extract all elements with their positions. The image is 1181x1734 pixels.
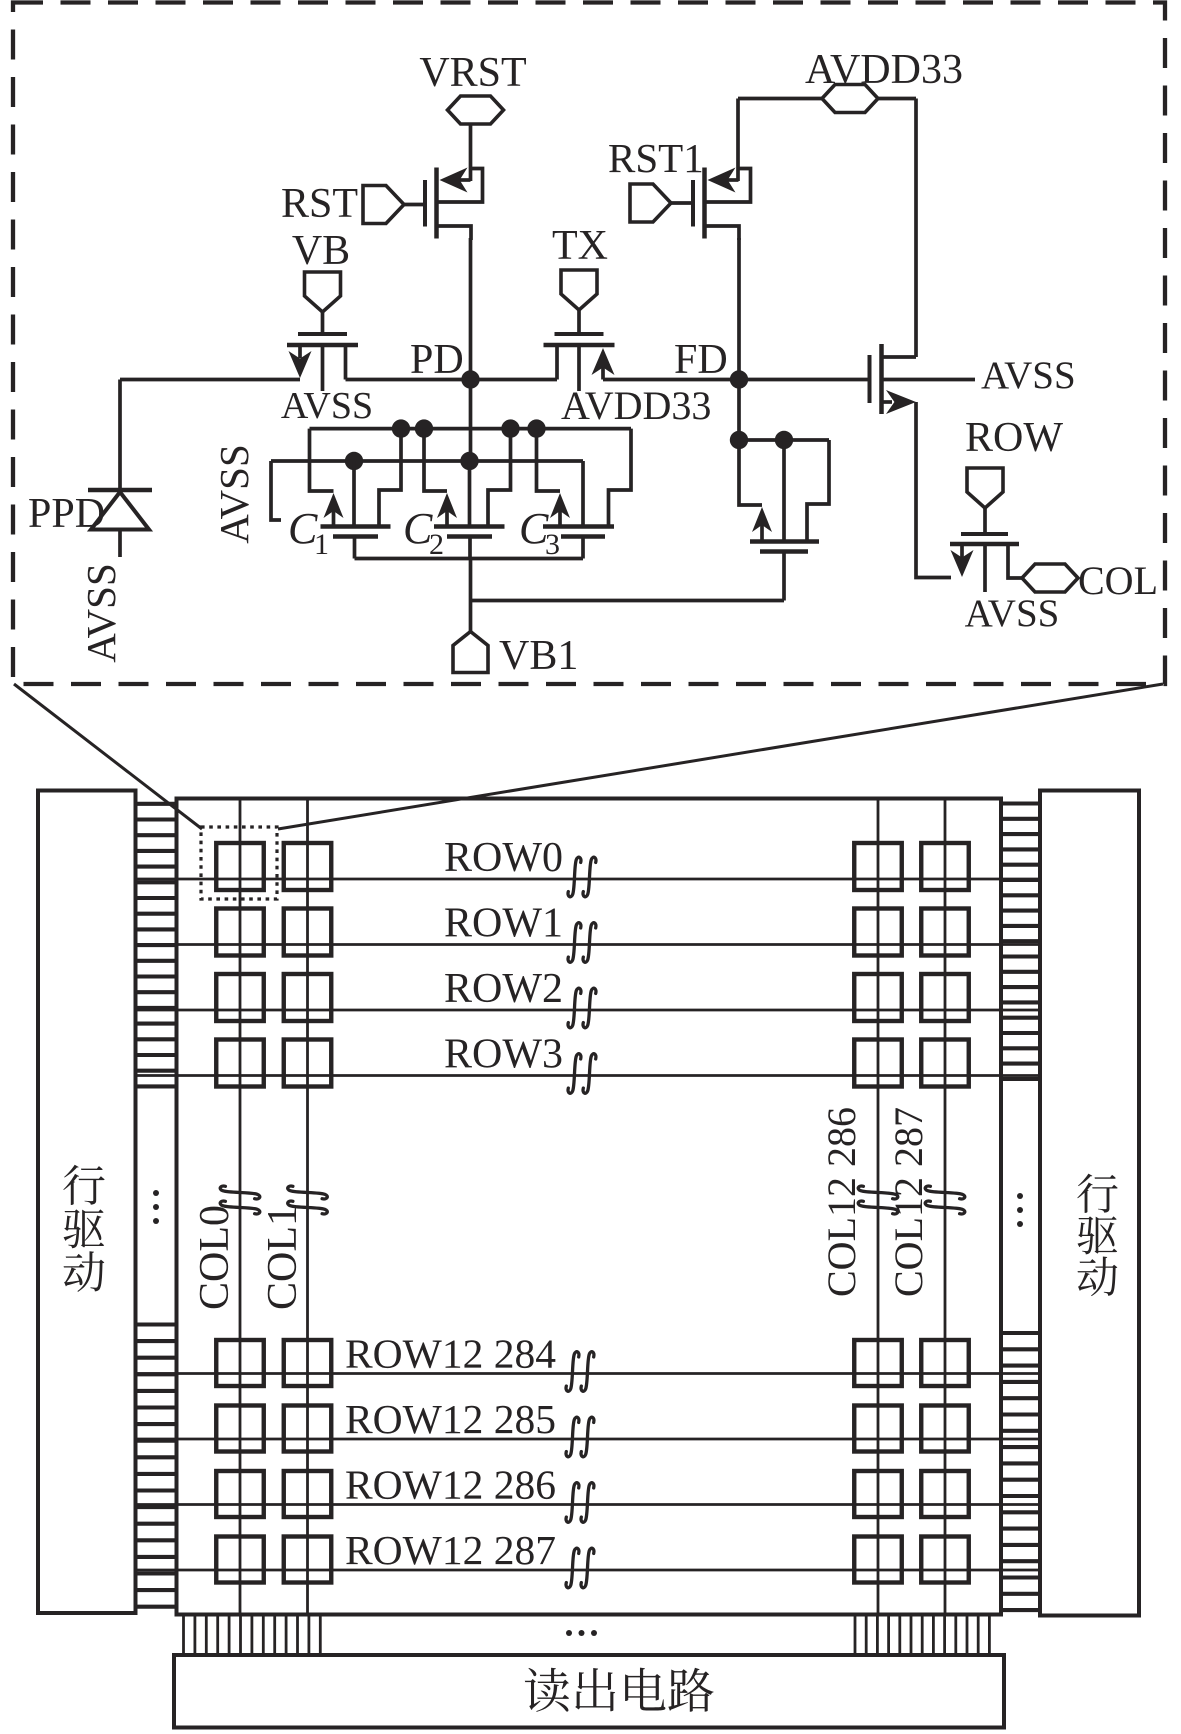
- capacitor C1 arrow: [324, 493, 344, 518]
- node PD junction: [461, 370, 479, 388]
- node CFD dot b: [775, 431, 793, 449]
- svg-text:PD: PD: [410, 337, 464, 383]
- wire AVSS bracket: [271, 461, 281, 520]
- capacitor CFD gate lead: [782, 552, 786, 601]
- pixel array box: [177, 799, 1002, 1615]
- capacitor C1 right lead: [379, 429, 401, 527]
- transistor M5 SF gate bar: [868, 355, 872, 403]
- node rail1 dot c: [501, 419, 519, 437]
- wire cap bottom rail: [355, 557, 584, 561]
- wire ROW gate: [983, 508, 987, 534]
- wire M1 source to PD: [469, 238, 473, 380]
- svg-text:ROW0: ROW0: [444, 835, 563, 881]
- wire TX to FD: [603, 378, 739, 382]
- wire M2 arrow tail: [727, 178, 739, 182]
- wire PPD cathode up: [118, 380, 122, 491]
- wire M1 drain bracket: [437, 169, 483, 203]
- svg-text:COL1: COL1: [260, 1205, 306, 1310]
- pixel cell squares: [216, 843, 264, 890]
- svg-text:AVSS: AVSS: [965, 592, 1060, 635]
- node rail2 dot a: [345, 452, 363, 470]
- svg-text:ROW12 285: ROW12 285: [345, 1396, 556, 1442]
- capacitor C1 channel bar: [321, 524, 391, 529]
- capacitor C2 gate lead: [468, 537, 472, 559]
- label left row-driver 行驱动: [63, 1165, 104, 1205]
- capacitor C3 left lead: [537, 429, 561, 491]
- capacitor C3 channel bar: [543, 524, 614, 529]
- capacitor C2 arrow: [437, 493, 457, 518]
- label right row-driver 行驱动: [1077, 1174, 1117, 1213]
- photodiode PPD triangle: [91, 492, 149, 530]
- input symbol VB1 pentagon: [453, 632, 488, 673]
- transistor M4 TX gate bar: [555, 332, 604, 336]
- capacitor C1 gate bar: [333, 534, 378, 539]
- dotted pixel cell box: [201, 827, 277, 899]
- wire rail lower: [271, 459, 583, 463]
- svg-text:ROW2: ROW2: [444, 966, 563, 1012]
- svg-text:COL12 287: COL12 287: [886, 1107, 931, 1297]
- transistor M5 SF body lead: [882, 378, 976, 382]
- output symbol COL hexagon: [1022, 564, 1078, 592]
- svg-text:AVSS: AVSS: [78, 563, 124, 663]
- svg-text:COL12 286: COL12 286: [819, 1107, 864, 1297]
- wire PD down to rail: [469, 380, 473, 462]
- svg-text:ROW: ROW: [965, 415, 1063, 461]
- label readout 读出电路: [525, 1668, 569, 1712]
- wire AVDD33 left: [738, 97, 822, 101]
- capacitor C2 right lead: [488, 429, 511, 527]
- dashed enclosure box of pixel schematic: [13, 3, 1165, 685]
- svg-text:AVSS: AVSS: [211, 444, 257, 544]
- svg-text:VB: VB: [292, 228, 350, 274]
- right row driver box: [1040, 791, 1139, 1616]
- transistor M5 SF source arrow: [882, 400, 893, 404]
- transistor M5 SF drain: [882, 355, 917, 359]
- power symbol AVDD33 hexagon: [822, 85, 878, 113]
- svg-text:FD: FD: [674, 337, 728, 383]
- capacitor C2 left lead: [424, 429, 447, 491]
- svg-text:ROW3: ROW3: [444, 1032, 563, 1078]
- svg-text:AVDD33: AVDD33: [561, 383, 711, 428]
- callout diagonal left: [14, 684, 202, 829]
- capacitor C3 gate bar: [561, 534, 605, 539]
- svg-text:AVSS: AVSS: [981, 354, 1076, 397]
- power symbol VRST hexagon: [448, 96, 504, 124]
- row line break marks: [568, 857, 596, 897]
- capacitor C3 gate lead: [581, 537, 585, 559]
- node rail2 dot b: [460, 452, 478, 470]
- wire VRST stem: [469, 123, 473, 181]
- wire VB1 branch to CFD: [471, 599, 785, 603]
- wire M1 source: [437, 226, 472, 240]
- transistor M3 drain lead: [344, 345, 348, 380]
- capacitor C1 gate lead: [353, 537, 357, 559]
- transistor M2 RST1 channel: [702, 168, 707, 239]
- svg-text:COL0: COL0: [192, 1205, 238, 1310]
- readout circuit box: [174, 1655, 1004, 1728]
- transistor M6 drain lead: [1008, 544, 1022, 578]
- transistor M3 VB channel: [287, 343, 358, 348]
- left row driver box: [38, 791, 136, 1614]
- wire PPD anode: [118, 530, 122, 558]
- node CFD dot a: [730, 431, 748, 449]
- capacitor C3 arrow: [550, 493, 570, 518]
- svg-text:2: 2: [429, 528, 444, 561]
- node rail1 dot d: [527, 419, 545, 437]
- row bus lines: [136, 878, 1041, 881]
- wire RST gate: [404, 203, 425, 207]
- transistor M6 gate bar: [961, 532, 1008, 536]
- transistor M2 RST1 drain arrow: [708, 168, 736, 193]
- svg-text:ROW12 284: ROW12 284: [345, 1331, 556, 1377]
- input symbol TX pentagon: [561, 270, 597, 310]
- capacitor C2 gate bar: [447, 534, 492, 539]
- svg-text:ROW12 287: ROW12 287: [345, 1527, 556, 1573]
- wire M3 to TX: [346, 378, 558, 382]
- svg-text:1: 1: [314, 528, 329, 561]
- node FD junction: [730, 370, 748, 388]
- node rail1 dot b: [415, 419, 433, 437]
- right vertical ellipsis: [1017, 1193, 1023, 1199]
- wire M2 source to FD: [737, 238, 741, 440]
- svg-text:AVSS: AVSS: [281, 385, 373, 427]
- wire M5 source down: [916, 402, 951, 578]
- input symbol RST pentagon: [363, 186, 404, 224]
- input symbol RST1 pentagon: [630, 184, 671, 222]
- svg-text:3: 3: [545, 528, 560, 561]
- wire AVDD33 drop to M2: [736, 99, 740, 182]
- transistor M6 source arrow: [960, 544, 964, 558]
- wire rail upper: [310, 427, 632, 431]
- comb teeth to readout: [182, 1615, 185, 1656]
- capacitor C1 mid lead: [352, 461, 356, 527]
- capacitor CFD gate bar: [760, 549, 808, 554]
- transistor M2 RST1 gate bar: [691, 180, 695, 227]
- svg-text:VB1: VB1: [499, 633, 578, 679]
- capacitor CFD channel bar: [750, 539, 819, 544]
- left vertical ellipsis: [153, 1190, 159, 1196]
- svg-text:RST: RST: [281, 181, 358, 227]
- svg-text:RST1: RST1: [608, 135, 704, 181]
- transistor M3 VB gate bar: [298, 332, 347, 336]
- transistor M6 body lead: [983, 544, 987, 592]
- column break marks: [220, 1186, 260, 1214]
- transistor M1 RST drain arrow: [440, 168, 468, 193]
- capacitor CFD mid lead: [782, 440, 786, 542]
- wire AVDD33 drop to M5 drain: [914, 99, 918, 358]
- wire FD to M5 gate: [739, 378, 870, 382]
- capacitor CFD right lead: [807, 440, 829, 542]
- transistor M1 RST gate bar: [423, 180, 427, 227]
- bottom ellipsis: [566, 1630, 572, 1636]
- input symbol ROW pentagon: [967, 468, 1003, 508]
- capacitor C1 left lead: [310, 429, 334, 491]
- column bus lines: [239, 799, 242, 1615]
- callout diagonal right: [278, 684, 1163, 829]
- wire CFD top: [739, 438, 829, 442]
- svg-text:ROW12 286: ROW12 286: [345, 1462, 556, 1508]
- svg-text:VRST: VRST: [419, 50, 526, 96]
- wire VB1 stem: [469, 559, 473, 632]
- wire PPD to M3: [120, 378, 300, 382]
- capacitor C3 mid lead: [581, 461, 585, 527]
- wire RST1 gate: [671, 201, 693, 205]
- left hatch connection lines: [136, 802, 177, 806]
- transistor M3 source arrow: [298, 345, 302, 358]
- transistor M4 source lead: [555, 345, 559, 380]
- capacitor C2 channel bar: [434, 524, 505, 529]
- input symbol VB pentagon: [305, 272, 341, 312]
- wire TX gate: [577, 310, 581, 334]
- right hatch connection lines: [1001, 801, 1040, 805]
- transistor M3 body lead: [321, 345, 325, 391]
- wire M2 source: [705, 226, 740, 240]
- wire M1 arrow tail: [459, 178, 471, 182]
- capacitor C3 right lead: [609, 429, 632, 527]
- node rail1 dot a: [392, 419, 410, 437]
- photodiode PPD cathode bar: [88, 488, 152, 493]
- svg-text:PPD: PPD: [28, 491, 105, 537]
- svg-text:COL: COL: [1078, 558, 1158, 603]
- wire AVDD33 right: [878, 97, 916, 101]
- wire VB gate: [321, 312, 325, 334]
- wire M2 drain bracket: [705, 169, 751, 203]
- transistor M6 channel: [950, 542, 1019, 547]
- svg-text:TX: TX: [552, 223, 608, 269]
- transistor M1 RST channel: [434, 168, 439, 239]
- transistor M4 drain arrow: [592, 348, 615, 375]
- capacitor CFD arrow: [752, 507, 772, 532]
- capacitor CFD left lead: [739, 440, 762, 505]
- transistor M4 body lead: [577, 345, 581, 391]
- transistor M4 TX channel: [544, 343, 615, 348]
- svg-text:AVDD33: AVDD33: [805, 47, 963, 93]
- svg-text:ROW1: ROW1: [444, 901, 563, 947]
- capacitor C2 mid lead: [468, 461, 472, 527]
- transistor M5 SF channel: [879, 344, 884, 414]
